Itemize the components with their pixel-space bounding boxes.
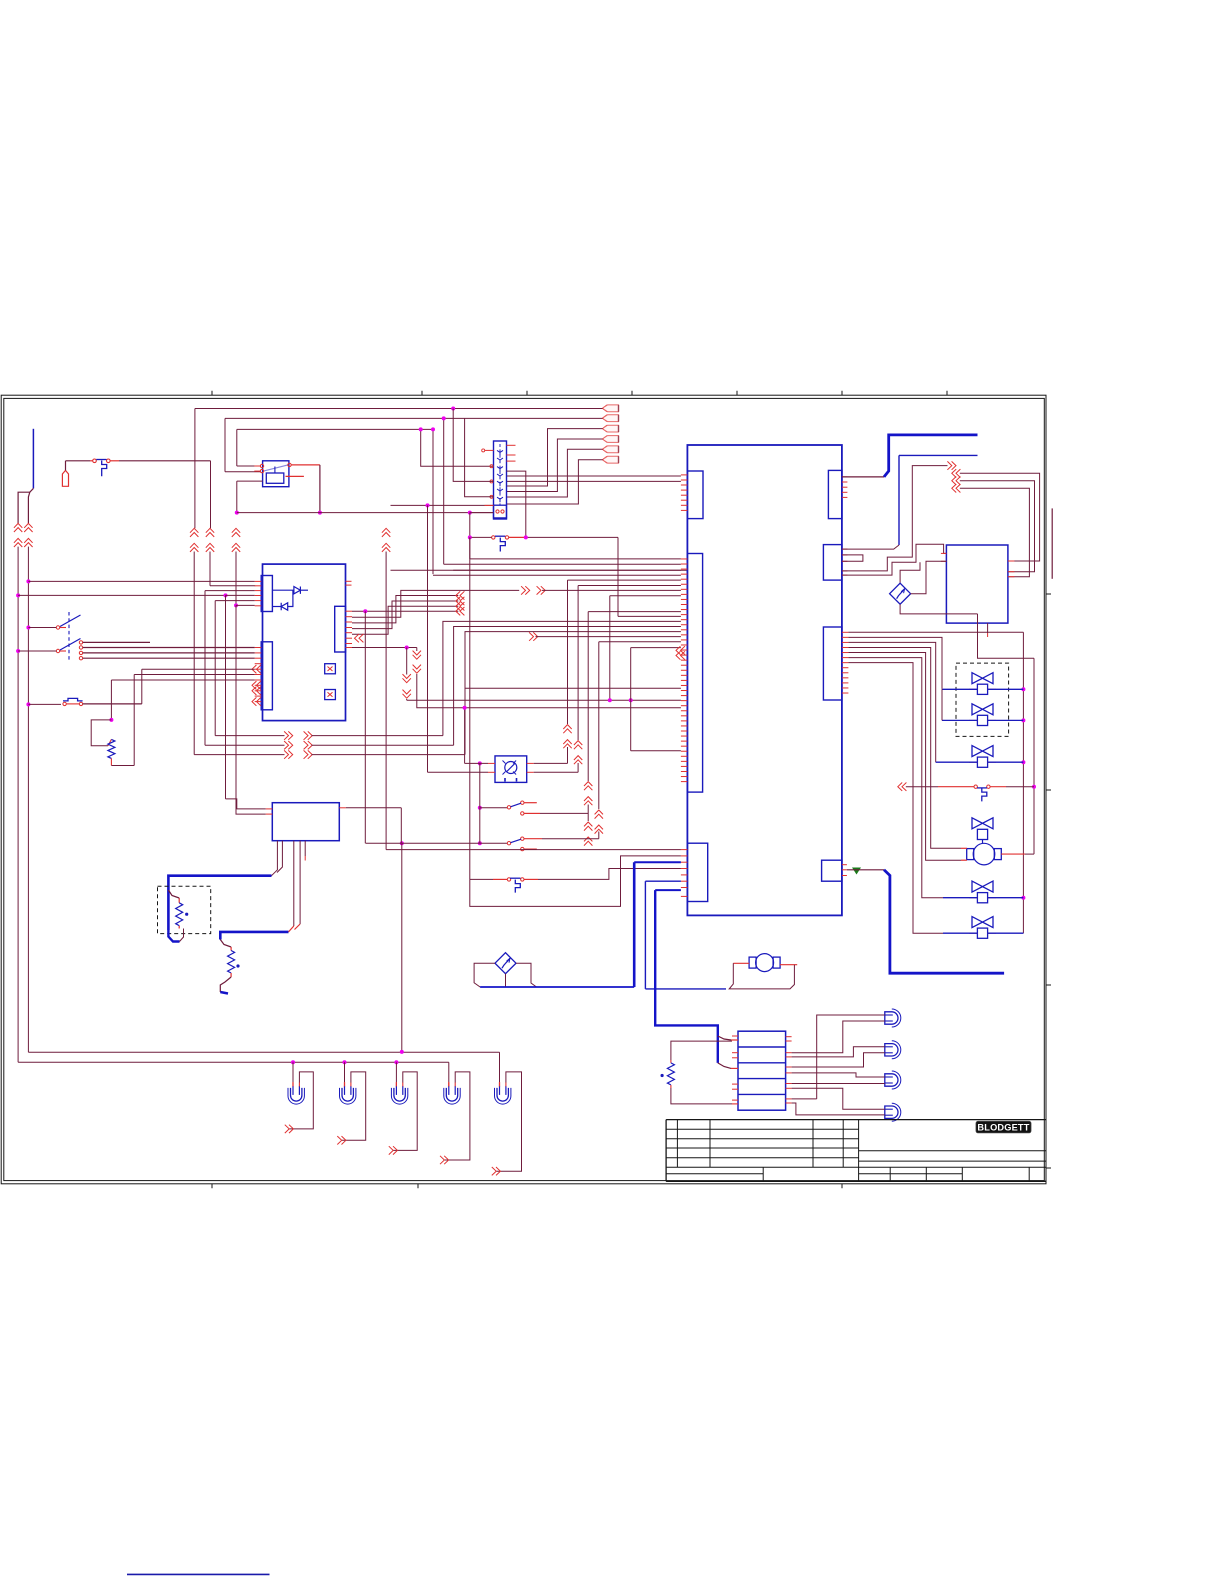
wire blue feed top-left bbox=[32, 429, 34, 489]
switch SW3 bbox=[507, 878, 510, 881]
U1 internal diodes bbox=[272, 589, 294, 591]
lamp PL4 bbox=[446, 1088, 457, 1101]
RB1 right pins bbox=[786, 1036, 792, 1038]
wire PL4 hook bbox=[445, 1072, 470, 1160]
U1 left pin block lower bbox=[261, 642, 272, 710]
wire TS1 conn to V469 bbox=[470, 512, 494, 514]
blue bus low bbox=[480, 986, 634, 988]
selector switch SW-A bbox=[68, 612, 70, 660]
wire V215 pin5 bbox=[215, 600, 255, 602]
wire pin611 from V588 bbox=[588, 611, 681, 613]
border zone ticks top bbox=[211, 391, 213, 395]
risers V444 V453 V464 to U2 mid pins bbox=[443, 621, 681, 735]
bus from L2 to U1 pin1 bbox=[26, 579, 30, 583]
bus BB y512 bbox=[237, 512, 494, 514]
wires F1 bbox=[900, 604, 977, 614]
bus2 y1062 bbox=[18, 1061, 449, 1063]
BLODGETT logo bbox=[976, 1121, 1031, 1133]
igniter IGN1 bbox=[168, 930, 179, 942]
wire V443 drop bbox=[443, 418, 445, 564]
arrows in RT (3) + transformer T1 feeds bbox=[956, 469, 960, 477]
arrow out bundle a bbox=[460, 591, 464, 599]
flame sensor probe B1 bbox=[62, 470, 68, 486]
bus1 y1052 bbox=[28, 1051, 499, 1053]
connector arrows VR3 bbox=[584, 782, 592, 786]
wire to valve V6 bbox=[848, 663, 943, 934]
wires TS1 to main board top pins bbox=[507, 475, 681, 477]
wire lug3 to TS1 bbox=[507, 429, 603, 486]
wire to valve V1 bbox=[848, 637, 942, 688]
spade lug 5 bbox=[603, 446, 608, 453]
wire S1 to node V210 bbox=[119, 460, 211, 462]
border zone ticks right bbox=[1046, 593, 1051, 595]
U1 pin 638 connector arrow bbox=[355, 634, 359, 642]
border frame outer bbox=[1, 395, 1046, 1184]
connector arrows node L2 bbox=[24, 523, 32, 527]
wire V420 drop to TS1 bbox=[421, 429, 494, 466]
wires LP1 right w chevrons bbox=[534, 762, 568, 764]
spade lug 4 bbox=[603, 436, 608, 443]
valve V2 bbox=[972, 704, 993, 715]
wire V205 pin3 bbox=[205, 590, 255, 592]
wire U2 small block right bbox=[842, 864, 847, 866]
thick blue igniter2 feed from T2 bbox=[220, 932, 288, 940]
arrow out RT bbox=[947, 461, 951, 469]
wire K1 bottom to bus bbox=[237, 480, 263, 482]
ignition module U1 bbox=[263, 564, 346, 721]
wire V453 top drop to TS1 bbox=[453, 409, 493, 482]
door resistor R-D loop bbox=[134, 674, 255, 676]
hi-limit switch S1 bbox=[93, 459, 97, 463]
bus TB1 y408 bbox=[195, 408, 603, 410]
motor M1 conveyor bbox=[756, 954, 774, 972]
push switch SW-P bbox=[26, 702, 30, 706]
resistor loop left of RB1 bbox=[671, 1041, 732, 1060]
wire fan to T1 pin2 bbox=[911, 561, 947, 593]
transformer T1 bbox=[946, 545, 1008, 623]
wires row2 arrows to risers bbox=[215, 735, 284, 737]
igniter IGN1 element bbox=[176, 903, 183, 926]
wires RB1 to LED1 bbox=[817, 1015, 885, 1099]
wire pin595 from V609 bbox=[610, 595, 681, 597]
wire V469 vertical bbox=[469, 513, 471, 538]
bus TB2 y418 bbox=[225, 417, 603, 419]
wire K1 contact out bbox=[291, 464, 320, 466]
connector arrows VR5 bbox=[595, 810, 603, 814]
TS1 left pins bbox=[485, 449, 494, 451]
igniter IGN2 element bbox=[228, 951, 235, 974]
wire T2 right to V401 bbox=[346, 807, 402, 809]
wire U1 pin 611 to arrow bbox=[352, 610, 458, 612]
blue wire upper right bbox=[899, 454, 978, 456]
wire fan top bbox=[900, 562, 920, 583]
wire T1 stub to RV2 bbox=[978, 614, 1035, 658]
spade lug 6 bbox=[603, 456, 608, 463]
wires RB1 to LED2 bbox=[792, 1047, 885, 1057]
wires RB1 to LED4 bbox=[792, 1098, 817, 1100]
wire V236 pin6 bbox=[236, 604, 255, 606]
fan F1 bbox=[890, 583, 911, 604]
wire V433 drop bbox=[432, 429, 434, 574]
TS1 right pins bbox=[507, 444, 516, 446]
arrow pair mid 590 bbox=[521, 586, 525, 594]
wire to valve V3 bbox=[848, 642, 935, 762]
indicator lamp LP1 bbox=[495, 756, 527, 783]
wire V236 lower to transformer bbox=[236, 736, 266, 815]
igniter IGN1 dashed box bbox=[158, 886, 211, 933]
valve V4 bbox=[972, 818, 993, 829]
spade lug 1 bbox=[603, 405, 608, 412]
RB1 left pins bbox=[732, 1035, 738, 1037]
U2 right pin block mid bbox=[823, 545, 842, 581]
thick blue V634 bbox=[633, 862, 636, 987]
U1 top-right bare stubs bbox=[346, 580, 352, 582]
U1 left pin block upper bbox=[261, 576, 272, 612]
connector arrows VR1 bbox=[563, 725, 571, 729]
stray line outside right border bbox=[1051, 508, 1053, 578]
lamp LED4 bbox=[885, 1106, 898, 1118]
lamp PL1 bbox=[291, 1088, 302, 1101]
wire V386 chevrons bbox=[382, 528, 390, 532]
connector arrows VR2 bbox=[574, 741, 582, 745]
thick blue feed top right bbox=[842, 476, 884, 478]
U2 right pin block low bbox=[823, 627, 842, 700]
spade lug 3 bbox=[603, 425, 608, 432]
lamp LED2 bbox=[885, 1044, 898, 1056]
U2 right small block bbox=[822, 860, 842, 881]
valve V3 bbox=[972, 746, 993, 757]
wire SW-B V618 to pin 616 bbox=[618, 615, 681, 617]
wire L2 vertical bbox=[27, 547, 29, 1053]
main control board U2 bbox=[687, 445, 842, 915]
chevrons node V194 bbox=[190, 528, 198, 532]
lamp LED3 bbox=[885, 1074, 898, 1086]
wire SW3 left loop to U2 bbox=[470, 856, 681, 907]
fan sail switch F2 bbox=[495, 953, 516, 974]
wire U2 pin570 arrow out bbox=[842, 466, 947, 571]
wire to motor M2 b bbox=[848, 653, 961, 861]
arrow mid 635 wire to pin bbox=[529, 632, 533, 640]
RB1 feeder diagonals from thick blue bbox=[718, 1036, 731, 1040]
lamp LED1 bbox=[885, 1012, 898, 1024]
title block bbox=[666, 1119, 1046, 1121]
wire to right vertical RV1 bbox=[848, 631, 1023, 633]
wire to motor M2 a bbox=[848, 648, 961, 849]
wire pin585 from V578 bbox=[578, 585, 681, 587]
arrow out bundle c bbox=[460, 602, 464, 610]
wire V210 vertical bbox=[210, 461, 212, 528]
wires RB1 to LED3 bbox=[792, 1073, 885, 1077]
pressure switch SW-B bbox=[492, 536, 495, 539]
wire V630 corner to pin 647 bbox=[631, 647, 681, 649]
U2 right pin block top bbox=[828, 470, 842, 518]
T2 bottom stubs bbox=[293, 841, 295, 926]
bus from L1 to U1 pin4 bbox=[16, 593, 20, 597]
wire V406 with down arrows bbox=[406, 648, 408, 675]
terminal strip TS1 bbox=[494, 441, 507, 519]
resistor R-RB bbox=[667, 1063, 674, 1085]
U1 lower pin connector arrows bbox=[252, 665, 256, 673]
spade lug 2 bbox=[603, 415, 608, 422]
switch SW2 bbox=[478, 841, 482, 845]
wires U1 pins risers to arrow bundle bbox=[352, 590, 519, 617]
thin blue V645 bbox=[644, 881, 646, 989]
drops to main board upper pins bbox=[444, 563, 681, 565]
resistor R-D bbox=[108, 739, 115, 758]
wire V365 drop bbox=[364, 611, 366, 843]
U1 indicator boxes bbox=[325, 664, 336, 674]
wire V365 to SW2 bus (drawn) extension down bbox=[365, 842, 367, 844]
wire lug5 to TS1 bbox=[507, 449, 603, 497]
relay block RB1 bbox=[738, 1031, 786, 1110]
wire PL3 hook bbox=[394, 1072, 418, 1151]
pressure switch SW4 right bbox=[902, 783, 906, 791]
thick blue V655 relay feeder bbox=[655, 890, 718, 1063]
wires SW-A commons to L1 L2 bbox=[26, 626, 30, 630]
wire pin641 from V598 bbox=[599, 641, 681, 643]
revision table bbox=[666, 1128, 859, 1130]
transformer T2 bbox=[272, 803, 339, 841]
border frame inner bbox=[4, 398, 1045, 1180]
T1 bottom stubs bbox=[987, 623, 989, 633]
wire SW3 right to U2 bbox=[538, 869, 681, 880]
wire PL5 hook bbox=[497, 1072, 522, 1171]
switch SW1 bbox=[478, 806, 482, 810]
valve V5 bbox=[972, 881, 993, 892]
wire SW-B to V618 bbox=[526, 536, 618, 538]
title area lines bbox=[859, 1150, 1047, 1152]
wire PL2 hook bbox=[342, 1072, 366, 1140]
wire L1 vertical bbox=[17, 547, 19, 1063]
wire U2 pin549 to blue riser bbox=[842, 545, 899, 549]
wire SW-P riser to U1 pin 669 bbox=[141, 669, 143, 704]
wires F2 bbox=[474, 963, 495, 987]
connector arrows node L1 bbox=[14, 523, 22, 527]
bus TB3 y429 bbox=[237, 428, 433, 430]
wires LP1 left bbox=[478, 761, 482, 765]
dashed box valves V1 V2 bbox=[956, 663, 1009, 736]
green flow marker bbox=[852, 868, 861, 875]
wire V401 down to bus1 bbox=[401, 843, 403, 1051]
valve V1 bbox=[972, 673, 993, 684]
wire V464 drop to TS1 bbox=[465, 418, 494, 496]
blue line bottom of page bbox=[127, 1573, 270, 1575]
wire line570 bbox=[391, 569, 688, 571]
thick blue right L bbox=[884, 870, 1004, 973]
U2 mid pins connector arrows bbox=[676, 646, 680, 654]
thick blue igniter1 feed bbox=[168, 876, 271, 930]
right vertical RV2 bbox=[1033, 658, 1035, 854]
wire V469 corner to board pin bbox=[469, 537, 471, 559]
T2 bottom to igniter bus bbox=[272, 841, 278, 876]
U jumper pins bbox=[842, 555, 863, 561]
wire pin575 to T1 bbox=[842, 544, 946, 575]
wire PL1 hook bbox=[290, 1072, 314, 1129]
wires SW-A to U1 pins bbox=[83, 647, 255, 649]
bus BA y505 bbox=[391, 504, 494, 506]
lamp drops bbox=[291, 1060, 295, 1064]
wire K1 coil stub bbox=[286, 475, 304, 477]
wire probe to switch bbox=[65, 461, 67, 471]
lamp PL5 bbox=[497, 1088, 508, 1101]
chevrons node V236 bbox=[232, 528, 240, 532]
wire lug4 to TS1 bbox=[507, 439, 603, 492]
U2 left pin block top bbox=[687, 471, 703, 519]
right vertical RV1 bbox=[1022, 632, 1024, 933]
igniter IGN2 bbox=[220, 940, 231, 948]
U1 right pin block bbox=[335, 606, 346, 652]
motor M2 gas valve bbox=[973, 843, 995, 865]
relay K1 bbox=[263, 461, 289, 487]
wires M1 loop bbox=[733, 962, 749, 964]
wire V225 drop bbox=[225, 595, 227, 799]
lamp PL2 bbox=[342, 1088, 353, 1101]
arrows mid row2 bbox=[284, 731, 288, 739]
wire V416 with down arrows bbox=[416, 648, 418, 652]
valve V6 bbox=[972, 917, 993, 928]
U2 left pin block bottom bbox=[687, 843, 707, 901]
arrow out bundle b bbox=[460, 597, 464, 605]
connector arrows VR4 bbox=[584, 822, 592, 826]
connector arrows node V210 bbox=[206, 528, 214, 532]
svg-text:BLODGETT: BLODGETT bbox=[977, 1122, 1029, 1132]
U2 left pin block mid bbox=[687, 554, 702, 793]
wire pin580 from V567 bbox=[568, 579, 681, 581]
wire to valve V5 bbox=[848, 658, 943, 898]
wire lug6 to TS1 bbox=[507, 460, 603, 504]
border zone ticks bottom bbox=[211, 1184, 213, 1188]
lamp PL3 bbox=[394, 1088, 405, 1101]
wire U1 pin 647 to V406 V416 bbox=[352, 647, 417, 649]
TS1 bottom connector bbox=[494, 505, 507, 518]
wire TS1 pin471 to SW-B bbox=[507, 471, 526, 537]
wire V465 branch y688 bbox=[465, 687, 681, 689]
bottom band bbox=[666, 1173, 763, 1175]
